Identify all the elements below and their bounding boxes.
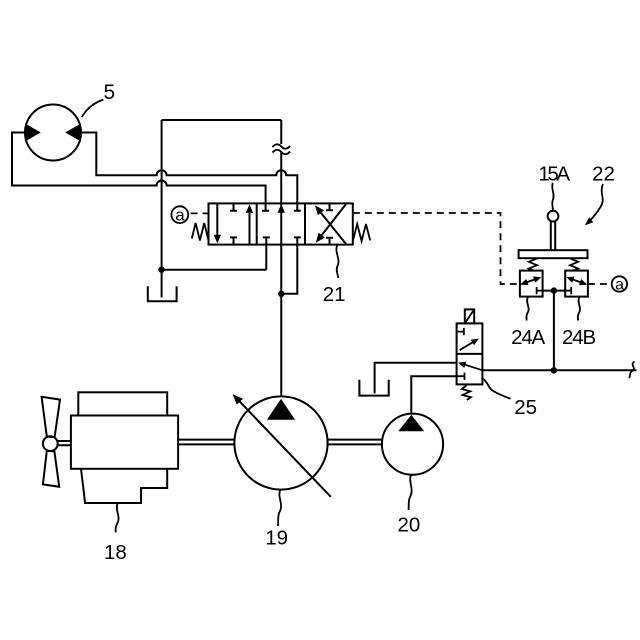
svg-text:24A: 24A bbox=[511, 326, 545, 349]
svg-text:22: 22 bbox=[592, 162, 615, 185]
svg-text:5: 5 bbox=[104, 81, 116, 104]
svg-text:18: 18 bbox=[104, 541, 127, 564]
svg-text:21: 21 bbox=[323, 283, 346, 306]
svg-text:20: 20 bbox=[397, 513, 420, 536]
svg-text:25: 25 bbox=[514, 396, 537, 419]
svg-text:24B: 24B bbox=[562, 326, 595, 349]
svg-text:15A: 15A bbox=[538, 162, 570, 185]
svg-text:a: a bbox=[615, 277, 624, 294]
svg-text:a: a bbox=[175, 206, 185, 225]
svg-text:19: 19 bbox=[265, 526, 288, 549]
